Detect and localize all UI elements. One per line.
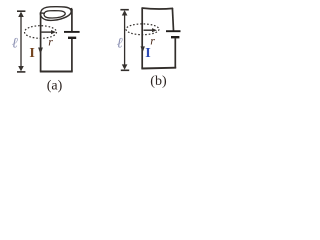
current direction arrowhead on left wire (b) — [141, 46, 145, 52]
wire: top (b) — [142, 8, 174, 9]
dimension line ell (b) — [120, 10, 129, 71]
svg-text:I: I — [145, 46, 150, 61]
svg-text:(b): (b) — [150, 74, 167, 89]
coil loop at top (a): outer turn — [40, 7, 71, 21]
battery cell: long plate (b) — [166, 30, 181, 32]
dimension line ell (a) — [17, 11, 25, 72]
svg-text:I: I — [29, 46, 34, 61]
wire: lower right side (b) — [174, 38, 176, 68]
battery cell: short plate (b) — [171, 36, 179, 38]
wire: left side (b) — [141, 8, 143, 69]
dashed field-line ellipse (a) — [25, 26, 57, 39]
coil loop at top (a): inner turn — [44, 11, 65, 18]
wire: bottom (b) — [141, 67, 176, 70]
wire: bottom (a) — [40, 71, 73, 73]
wire: loop exit link to top-right corner (a) — [70, 8, 72, 10]
battery cell: long plate (a) — [64, 31, 80, 33]
wire: loop entry stub (a) — [40, 12, 45, 14]
wire: left side (a) — [40, 12, 42, 71]
radius arrow r (a) — [42, 31, 53, 33]
svg-text:r: r — [150, 33, 155, 47]
current direction arrowhead on left wire (a) — [38, 48, 43, 55]
wire: upper right side (a) — [71, 9, 73, 31]
wire: lower right side (a) — [71, 39, 73, 72]
svg-text:r: r — [48, 34, 53, 48]
battery cell: short plate (a) — [68, 37, 76, 39]
svg-text:(a): (a) — [47, 78, 63, 93]
dashed field-line ellipse (b) — [126, 24, 159, 35]
radius arrow r (b) — [144, 29, 154, 31]
wire: upper right side (b) — [172, 8, 173, 31]
svg-text:ℓ: ℓ — [117, 35, 123, 51]
svg-text:ℓ: ℓ — [12, 36, 18, 52]
